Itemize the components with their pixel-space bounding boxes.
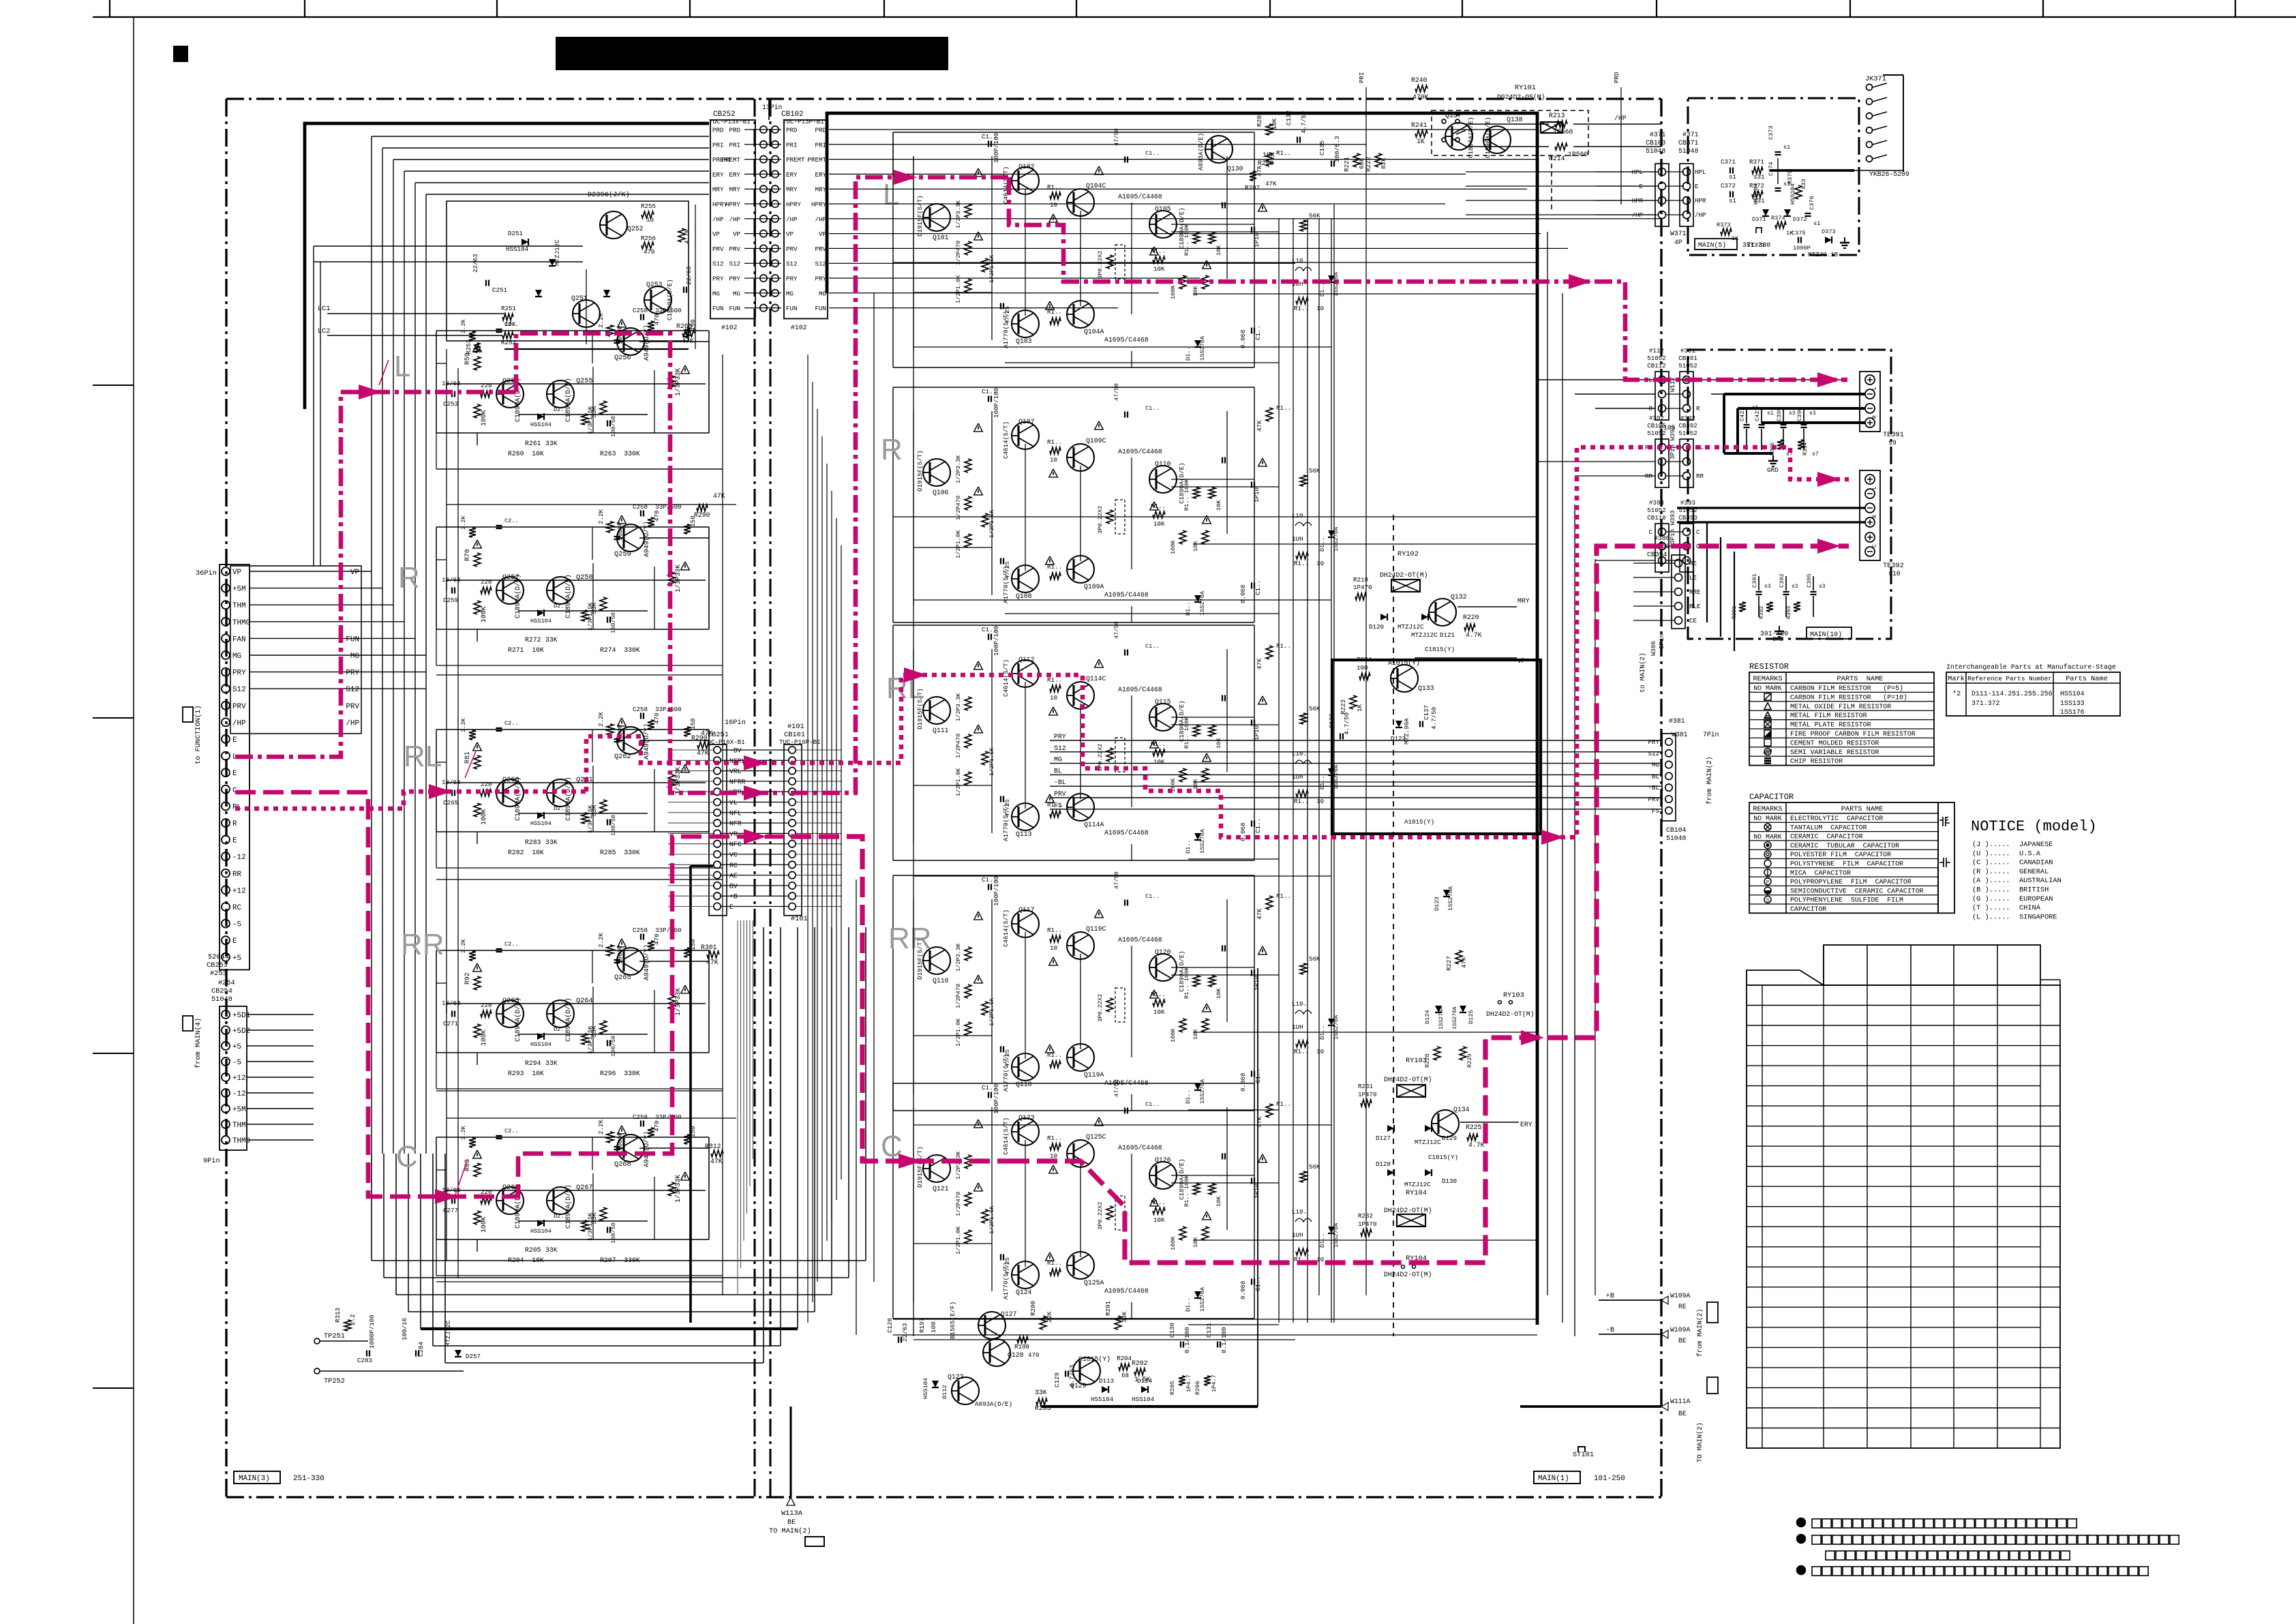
svg-text:Q102: Q102	[1018, 163, 1035, 170]
svg-text:Q137: Q137	[1445, 112, 1462, 119]
svg-text:220: 220	[481, 578, 492, 586]
svg-text:L10.: L10.	[1292, 1208, 1307, 1216]
svg-text:PRV: PRV	[1648, 796, 1659, 803]
svg-text:10: 10	[1050, 456, 1057, 464]
svg-text:Q122: Q122	[948, 1373, 964, 1381]
svg-text:FUN: FUN	[786, 305, 798, 312]
svg-text:R294: R294	[525, 1059, 541, 1067]
svg-text:MTZJ12C: MTZJ12C	[1411, 631, 1438, 639]
svg-text:1P10: 1P10	[1253, 976, 1260, 991]
svg-text:371.372: 371.372	[1972, 700, 2000, 707]
svg-text:HSS104: HSS104	[530, 1041, 552, 1048]
svg-text:C1890A(D/E): C1890A(D/E)	[1484, 117, 1492, 158]
svg-text:BRITISH: BRITISH	[2019, 886, 2049, 894]
svg-text:C374: C374	[1768, 162, 1774, 176]
svg-text:R205: R205	[1169, 1381, 1176, 1395]
svg-text:Q119C: Q119C	[1086, 925, 1106, 933]
svg-text:FUN: FUN	[712, 305, 724, 312]
svg-text:L10.: L10.	[1292, 750, 1307, 757]
svg-text:1/3P33K: 1/3P33K	[674, 988, 682, 1016]
svg-text:CERAMIC TUBULAR CAPACITOR: CERAMIC TUBULAR CAPACITOR	[1790, 842, 1899, 849]
svg-text:Q106: Q106	[933, 489, 949, 496]
svg-text:4.7/50: 4.7/50	[1430, 707, 1438, 730]
svg-text:D2..: D2..	[554, 406, 568, 413]
svg-text:PRY: PRY	[1054, 733, 1066, 740]
svg-text:1/2P1.0K: 1/2P1.0K	[955, 1018, 962, 1047]
svg-text:D1..: D1..	[1319, 537, 1326, 552]
svg-text:CHINA: CHINA	[2019, 904, 2041, 912]
svg-text:PREMT: PREMT	[721, 156, 740, 164]
svg-text:NOTICE (model): NOTICE (model)	[1971, 818, 2097, 835]
svg-text:Q134: Q134	[1453, 1106, 1470, 1113]
svg-text:L: L	[1872, 486, 1878, 490]
svg-text:51048: 51048	[1646, 147, 1666, 155]
svg-text:100/50: 100/50	[610, 612, 617, 633]
svg-text:47/50: 47/50	[1113, 1079, 1120, 1097]
svg-text:ST101: ST101	[1573, 1451, 1594, 1459]
svg-text:5Pin: 5Pin	[1658, 634, 1665, 649]
svg-text:4.7/50: 4.7/50	[1343, 712, 1350, 735]
svg-text:PARTS NAME: PARTS NAME	[1837, 675, 1884, 683]
svg-text:VP: VP	[232, 569, 241, 577]
svg-text:CB103: CB103	[1646, 139, 1666, 147]
svg-text:1K: 1K	[1356, 704, 1363, 712]
svg-text:1/3P33K: 1/3P33K	[674, 1175, 682, 1203]
svg-text:D1..: D1..	[1319, 1025, 1326, 1040]
svg-text:R260 10K: R260 10K	[508, 450, 544, 457]
svg-text:D372: D372	[1793, 216, 1807, 223]
svg-text:s1: s1	[1729, 173, 1737, 181]
svg-text:PARTS NAME: PARTS NAME	[1841, 805, 1884, 813]
svg-text:R375: R375	[1787, 170, 1794, 184]
svg-text:C371: C371	[1721, 158, 1736, 166]
svg-text:HPRY: HPRY	[725, 201, 741, 209]
svg-text:#102: #102	[721, 324, 738, 331]
svg-text:R373: R373	[1717, 222, 1731, 228]
svg-text:C1890A(D/E): C1890A(D/E)	[1467, 117, 1475, 158]
svg-text:NFRR: NFRR	[729, 778, 746, 785]
svg-text:0.068: 0.068	[1239, 1280, 1247, 1299]
svg-text:A1695/C4468: A1695/C4468	[1104, 1287, 1149, 1295]
svg-text:D2..: D2..	[554, 603, 568, 610]
svg-text:RY102: RY102	[1398, 550, 1419, 558]
svg-text:CB254: CB254	[211, 987, 232, 995]
svg-text:R241: R241	[1411, 121, 1428, 129]
svg-text:s33: s33	[1800, 179, 1807, 190]
svg-text:C373: C373	[1768, 125, 1774, 140]
svg-text:100P/100: 100P/100	[993, 133, 1000, 163]
svg-text:PRY: PRY	[815, 275, 826, 283]
svg-text:1/2P470: 1/2P470	[955, 984, 962, 1008]
svg-text:Q110: Q110	[1155, 460, 1171, 468]
svg-text:MTZJ12C: MTZJ12C	[1404, 1181, 1431, 1188]
svg-text:Q130: Q130	[1227, 165, 1243, 172]
svg-text:1000P: 1000P	[616, 522, 624, 541]
svg-text:MAIN(5): MAIN(5)	[1698, 241, 1726, 249]
svg-text:+5M: +5M	[232, 586, 246, 594]
svg-text:E: E	[232, 837, 237, 845]
svg-text:/HP: /HP	[1695, 211, 1706, 219]
svg-text:391-400: 391-400	[1760, 630, 1788, 637]
svg-text:1000P: 1000P	[616, 1132, 624, 1151]
svg-text:R198: R198	[1014, 1343, 1029, 1351]
svg-text:220: 220	[481, 1002, 492, 1009]
svg-text:S12: S12	[815, 260, 826, 268]
svg-text:HSS104: HSS104	[530, 618, 552, 625]
svg-text:C137: C137	[1423, 705, 1430, 720]
svg-text:/HP: /HP	[712, 215, 724, 223]
svg-text:10K: 10K	[1215, 500, 1222, 511]
svg-text:B1565(E/F): B1565(E/F)	[949, 1302, 956, 1339]
svg-text:C129: C129	[1053, 1372, 1061, 1387]
svg-text:VP: VP	[819, 230, 827, 238]
svg-text:1/2P1.5K: 1/2P1.5K	[988, 254, 995, 283]
svg-text:33K: 33K	[1121, 1311, 1128, 1323]
svg-text:1P560: 1P560	[1568, 151, 1588, 158]
svg-text:VR: VR	[729, 830, 738, 838]
svg-text:S12: S12	[232, 686, 246, 694]
svg-text:-BL: -BL	[1054, 779, 1066, 786]
svg-text:(A ).....: (A ).....	[1972, 877, 2010, 885]
svg-text:MG: MG	[712, 290, 720, 297]
svg-text:Q111: Q111	[933, 727, 949, 734]
svg-text:1000P/100: 1000P/100	[368, 1314, 376, 1349]
svg-text:Q265: Q265	[614, 974, 631, 982]
svg-text:R1..: R1..	[1047, 183, 1062, 191]
svg-text:1SS270A: 1SS270A	[1447, 886, 1454, 911]
svg-text:C1..: C1..	[1254, 325, 1262, 340]
svg-text:Reference Parts Number: Reference Parts Number	[1967, 675, 2052, 682]
svg-text:470: 470	[1028, 1351, 1040, 1359]
svg-text:22/63: 22/63	[901, 1323, 909, 1342]
svg-text:C2..: C2..	[504, 517, 519, 524]
svg-text:S12: S12	[786, 260, 798, 268]
svg-text:100K: 100K	[480, 606, 487, 622]
svg-text:MTZJ9.1B: MTZJ9.1B	[1808, 251, 1839, 258]
svg-text:R392: R392	[1759, 606, 1765, 619]
svg-text:D123: D123	[1434, 897, 1440, 911]
svg-text:1SS270A: 1SS270A	[1452, 1006, 1458, 1029]
svg-text:POLYESTER FILM CAPACITOR: POLYESTER FILM CAPACITOR	[1790, 851, 1891, 858]
svg-text:Q124: Q124	[1016, 1289, 1032, 1296]
svg-text:ERY: ERY	[712, 171, 724, 179]
svg-text:0.1/100: 0.1/100	[1183, 1327, 1191, 1353]
svg-text:E: E	[1695, 183, 1699, 190]
svg-text:Q127: Q127	[1001, 1310, 1017, 1318]
svg-text:HSS104: HSS104	[1789, 183, 1796, 205]
svg-text:100/50: 100/50	[610, 416, 617, 437]
svg-text:FAN: FAN	[232, 635, 246, 644]
svg-text:Q262: Q262	[614, 753, 631, 761]
svg-text:D2396(J/K): D2396(J/K)	[588, 191, 630, 199]
svg-text:R261: R261	[525, 440, 541, 447]
svg-text:D1..: D1..	[1319, 1233, 1326, 1248]
svg-text:2.2K: 2.2K	[460, 939, 467, 953]
svg-text:HSS104: HSS104	[1132, 1396, 1155, 1403]
svg-text:7Pin: 7Pin	[1703, 731, 1719, 738]
svg-text:S12: S12	[712, 260, 724, 268]
svg-text:1P470: 1P470	[1358, 1091, 1377, 1098]
svg-text:-5: -5	[232, 921, 241, 929]
svg-text:DH24D2-OT(M): DH24D2-OT(M)	[1384, 1207, 1432, 1214]
svg-text:(B ).....: (B ).....	[1972, 886, 2010, 894]
svg-text:1SS176: 1SS176	[2060, 708, 2085, 716]
svg-text:47/25: 47/25	[1004, 1049, 1011, 1067]
svg-text:100P/100: 100P/100	[993, 388, 1000, 418]
svg-text:C2..: C2..	[504, 321, 519, 328]
svg-text:VP: VP	[712, 230, 721, 238]
svg-text:CB104: CB104	[1666, 826, 1687, 834]
svg-text:PRV: PRV	[729, 245, 740, 253]
svg-text:S: S	[1766, 898, 1770, 903]
svg-text:#371: #371	[1682, 131, 1699, 138]
svg-text:1/2P1.0K: 1/2P1.0K	[955, 530, 962, 558]
svg-text:Q133: Q133	[1418, 685, 1434, 692]
svg-text:+5D2: +5D2	[232, 1027, 250, 1036]
svg-text:C1..: C1..	[1145, 405, 1160, 412]
svg-text:RY104: RY104	[1406, 1189, 1427, 1197]
svg-text:CB253: CB253	[207, 961, 228, 969]
svg-text:1/2P1.0K: 1/2P1.0K	[955, 1226, 962, 1254]
svg-text:s1: s1	[1813, 220, 1820, 227]
svg-text:C1815(Y): C1815(Y)	[1425, 646, 1455, 653]
svg-text:3P0.22X2: 3P0.22X2	[1097, 506, 1104, 534]
svg-text:D1915F(S/T): D1915F(S/T)	[916, 195, 924, 237]
svg-text:METAL FILM RESISTOR: METAL FILM RESISTOR	[1790, 712, 1867, 719]
svg-text:47/25: 47/25	[1004, 306, 1011, 324]
svg-text:VP: VP	[786, 230, 794, 238]
svg-text:33K: 33K	[545, 1059, 558, 1067]
svg-text:(J ).....: (J ).....	[1972, 841, 2010, 849]
svg-text:PRD: PRD	[1613, 72, 1620, 83]
svg-text:1P10: 1P10	[1253, 232, 1260, 247]
svg-text:C395: C395	[1806, 573, 1813, 588]
svg-text:TUC-P13P-B1: TUC-P13P-B1	[783, 118, 824, 125]
svg-text:POLYPHENYLENE SULFIDE FILM: POLYPHENYLENE SULFIDE FILM	[1790, 897, 1903, 904]
svg-text:PRV: PRV	[346, 703, 359, 711]
svg-text:470: 470	[653, 1120, 661, 1132]
svg-text:R207 330K: R207 330K	[600, 1257, 640, 1264]
svg-text:47/50: 47/50	[1113, 871, 1120, 889]
svg-text:10K: 10K	[1215, 1196, 1222, 1207]
svg-text:D1915F(S/T): D1915F(S/T)	[916, 450, 924, 492]
svg-text:from MAIN(2): from MAIN(2)	[1696, 1308, 1704, 1357]
svg-text:47K: 47K	[1256, 420, 1263, 432]
svg-text:BL: BL	[1652, 772, 1659, 780]
svg-text:/HP: /HP	[786, 215, 798, 223]
svg-text:RY103: RY103	[1503, 991, 1524, 999]
svg-text:THM: THM	[232, 1122, 246, 1130]
svg-text:PRY: PRY	[786, 275, 798, 283]
svg-text:1/2P1.0K: 1/2P1.0K	[955, 275, 962, 303]
svg-text:MG: MG	[350, 652, 359, 661]
svg-text:4.7K: 4.7K	[1466, 631, 1482, 639]
svg-text:R1..: R1..	[1276, 404, 1291, 412]
svg-text:PRI: PRI	[729, 141, 740, 149]
svg-text:C: C	[1648, 528, 1652, 536]
svg-text:CAPACITOR: CAPACITOR	[1790, 905, 1826, 913]
svg-text:HSS104: HSS104	[506, 245, 529, 253]
svg-text:S12: S12	[1648, 750, 1659, 757]
svg-text:4.7/50: 4.7/50	[1300, 111, 1308, 134]
svg-text:R263 330K: R263 330K	[600, 450, 640, 457]
svg-text:C1890A(D/E): C1890A(D/E)	[514, 574, 522, 618]
svg-text:47K: 47K	[1256, 1116, 1263, 1128]
svg-text:PRI: PRI	[712, 141, 724, 149]
svg-text:R283: R283	[525, 839, 541, 846]
svg-text:METAL OXIDE FILM RESISTOR: METAL OXIDE FILM RESISTOR	[1790, 703, 1891, 710]
svg-text:Q105: Q105	[1155, 205, 1171, 213]
svg-text:A1695/C4468: A1695/C4468	[1104, 336, 1149, 344]
svg-text:D129: D129	[1442, 1134, 1457, 1142]
svg-text:CB110: CB110	[1647, 514, 1666, 522]
svg-text:NFR: NFR	[729, 820, 742, 828]
svg-text:33K: 33K	[545, 1246, 558, 1254]
svg-text:D1..: D1..	[1185, 1089, 1192, 1104]
svg-text:51052: 51052	[1678, 362, 1697, 370]
svg-text:470: 470	[644, 248, 655, 256]
svg-text:PRY: PRY	[1648, 738, 1659, 746]
svg-text:to MAIN(2): to MAIN(2)	[1639, 652, 1646, 693]
svg-text:R201: R201	[1104, 1300, 1112, 1316]
svg-text:1P4.7: 1P4.7	[1211, 1374, 1218, 1392]
svg-text:R1..: R1..	[1276, 1100, 1291, 1108]
svg-text:D111-114.251.255.256: D111-114.251.255.256	[1972, 690, 2053, 697]
svg-text:C1..: C1..	[1145, 150, 1160, 157]
svg-text:from MAIN(4): from MAIN(4)	[194, 1018, 202, 1068]
svg-text:E: E	[232, 770, 237, 778]
svg-text:+5M: +5M	[232, 1106, 246, 1114]
svg-text:1/2P1.0K: 1/2P1.0K	[955, 768, 962, 796]
svg-text:47/50: 47/50	[1113, 128, 1120, 146]
svg-text:E: E	[232, 937, 237, 946]
svg-text:ELECTROLYTIC CAPACITOR: ELECTROLYTIC CAPACITOR	[1790, 815, 1883, 822]
svg-text:1000P: 1000P	[616, 724, 624, 743]
svg-text:TUC-P13X-B1: TUC-P13X-B1	[709, 118, 751, 125]
svg-text:FS: FS	[1652, 807, 1660, 815]
svg-text:CAPACITOR: CAPACITOR	[1749, 792, 1794, 802]
svg-text:(G ).....: (G ).....	[1972, 895, 2010, 903]
svg-text:10: 10	[1050, 201, 1057, 209]
svg-text:W386: W386	[1650, 641, 1657, 656]
svg-text:/HP: /HP	[346, 719, 359, 727]
svg-text:C1815(Y): C1815(Y)	[1428, 1154, 1458, 1161]
svg-text:R293 10K: R293 10K	[508, 1070, 544, 1077]
svg-text:C1890A(D/E): C1890A(D/E)	[564, 777, 572, 821]
svg-text:VP: VP	[1517, 657, 1526, 665]
svg-text:R231: R231	[1358, 1083, 1374, 1090]
svg-text:R225: R225	[1466, 1124, 1482, 1131]
svg-text:#386: #386	[1654, 535, 1670, 542]
svg-text:R: R	[881, 433, 903, 466]
svg-text:10K: 10K	[1153, 1008, 1165, 1016]
svg-text:MICA CAPACITOR: MICA CAPACITOR	[1790, 869, 1851, 877]
svg-text:(U ).....: (U ).....	[1972, 849, 2010, 858]
svg-text:R256: R256	[641, 235, 656, 242]
svg-text:10K: 10K	[1271, 118, 1278, 130]
svg-text:Q268: Q268	[614, 1160, 631, 1169]
svg-text:+12: +12	[232, 887, 246, 895]
svg-text:R: R	[232, 820, 237, 828]
svg-text:-5: -5	[232, 1059, 241, 1067]
svg-text:-B: -B	[1606, 1326, 1614, 1334]
svg-text:RE: RE	[1678, 1303, 1687, 1310]
svg-text:R394: R394	[1802, 442, 1809, 455]
svg-text:Mark: Mark	[1948, 675, 1965, 683]
svg-text:+B: +B	[729, 893, 738, 901]
svg-text:Q121: Q121	[933, 1185, 949, 1192]
svg-text:Q119A: Q119A	[1084, 1071, 1104, 1079]
svg-text:R282 10K: R282 10K	[508, 849, 544, 856]
svg-text:VC: VC	[729, 852, 738, 859]
svg-text:13Pin: 13Pin	[762, 104, 783, 111]
svg-text:47K: 47K	[710, 1158, 723, 1165]
svg-text:VL: VL	[729, 799, 738, 807]
svg-text:R204 10K: R204 10K	[508, 1257, 544, 1264]
svg-text:Q104C: Q104C	[1086, 182, 1106, 190]
svg-text:2.2K: 2.2K	[460, 319, 467, 333]
svg-text:s3: s3	[1819, 584, 1826, 590]
svg-text:C1..: C1..	[1145, 1101, 1160, 1108]
svg-text:L: L	[394, 350, 410, 383]
svg-text:52044: 52044	[208, 953, 229, 961]
svg-text:C391: C391	[1751, 573, 1758, 588]
svg-text:33K: 33K	[1035, 1389, 1047, 1396]
svg-text:R1..: R1..	[1047, 927, 1062, 934]
svg-text:U.S.A: U.S.A	[2019, 849, 2041, 858]
svg-text:ERY: ERY	[815, 171, 826, 179]
svg-text:PRD: PRD	[815, 127, 826, 134]
svg-text:100K: 100K	[480, 1216, 487, 1233]
svg-text:47K: 47K	[682, 337, 694, 345]
svg-text:R220: R220	[1463, 614, 1479, 621]
svg-text:10K: 10K	[1153, 265, 1165, 273]
svg-text:#393: #393	[1680, 499, 1695, 507]
svg-text:R272: R272	[525, 636, 541, 644]
svg-text:10K: 10K	[1215, 738, 1222, 749]
svg-text:BL: BL	[1054, 767, 1062, 775]
svg-text:C: C	[396, 1140, 418, 1173]
svg-text:1SS270A: 1SS270A	[1199, 590, 1206, 616]
svg-text:CB391: CB391	[1678, 355, 1697, 362]
svg-text:R59: R59	[464, 352, 471, 365]
svg-text:/HP: /HP	[815, 215, 826, 223]
svg-text:470: 470	[653, 510, 661, 522]
svg-text:NFC: NFC	[729, 841, 742, 848]
svg-text:1K: 1K	[1417, 138, 1425, 145]
svg-text:SEMI VARIABLE RESISTOR: SEMI VARIABLE RESISTOR	[1790, 749, 1879, 756]
svg-text:C1890A(D/E): C1890A(D/E)	[514, 777, 522, 821]
svg-text:PRI: PRI	[786, 141, 798, 149]
svg-text:#381: #381	[1669, 717, 1685, 725]
svg-text:PRI: PRI	[1358, 72, 1365, 83]
svg-text:s3: s3	[1809, 410, 1816, 417]
svg-text:0.068: 0.068	[1239, 329, 1247, 348]
svg-text:PRI: PRI	[815, 141, 826, 149]
svg-text:/HP: /HP	[729, 215, 740, 223]
svg-text:E: E	[232, 736, 237, 745]
svg-text:47/50: 47/50	[1113, 383, 1120, 401]
svg-text:470: 470	[653, 314, 661, 325]
svg-text:371-380: 371-380	[1742, 241, 1770, 249]
svg-text:1P4.7: 1P4.7	[1185, 1374, 1192, 1392]
svg-text:HPL: HPL	[1695, 168, 1706, 176]
svg-text:R271 10K: R271 10K	[508, 646, 544, 654]
svg-text:A1015(Y): A1015(Y)	[1404, 818, 1434, 826]
svg-text:10K: 10K	[1153, 1216, 1165, 1224]
svg-text:C265: C265	[443, 799, 458, 807]
svg-text:D1..: D1..	[1319, 775, 1326, 790]
